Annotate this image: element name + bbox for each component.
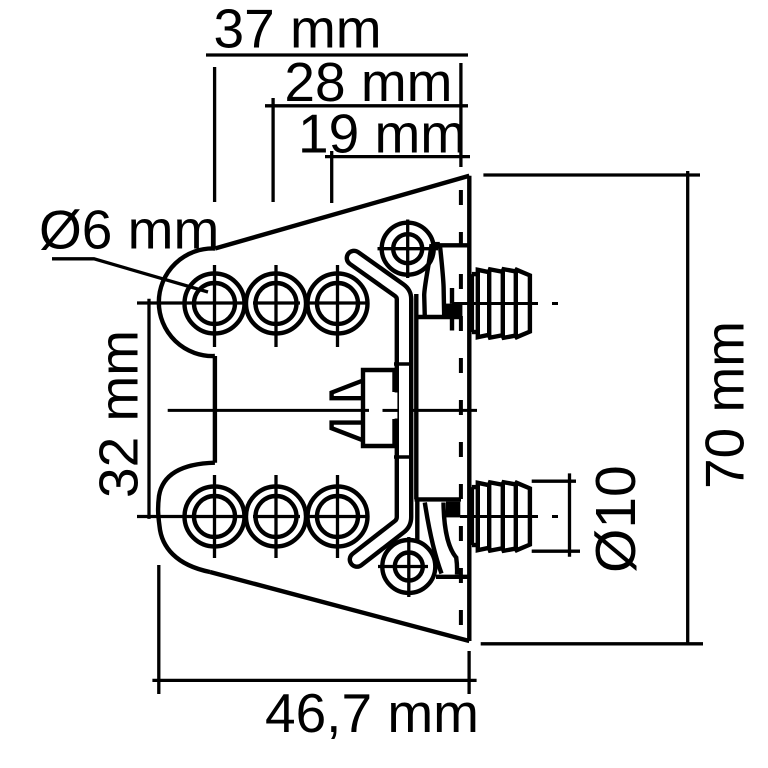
svg-text:32 mm: 32 mm <box>87 330 149 498</box>
svg-text:Ø6 mm: Ø6 mm <box>39 199 219 261</box>
svg-text:70 mm: 70 mm <box>694 321 756 489</box>
svg-text:46,7 mm: 46,7 mm <box>265 682 479 744</box>
svg-text:19 mm: 19 mm <box>298 103 466 165</box>
svg-text:Ø10: Ø10 <box>584 465 648 573</box>
